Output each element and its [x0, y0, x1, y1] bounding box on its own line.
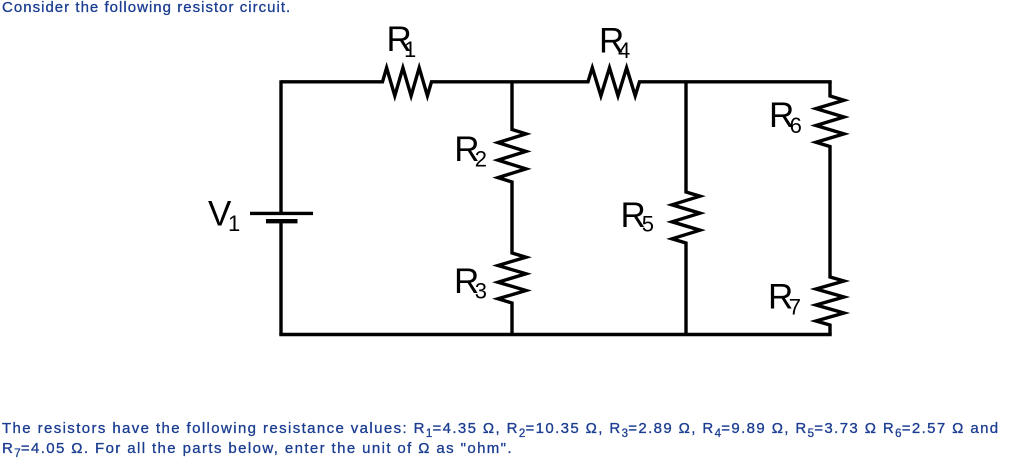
svg-text:3: 3: [475, 279, 487, 304]
middle branch: resistor R2 and resistor R3: [498, 82, 526, 335]
svg-text:4: 4: [618, 38, 630, 63]
battery V1 short plate: [266, 219, 298, 223]
wire top with resistor R1 and resistor R4 zigzags: [281, 68, 832, 96]
bottom paragraph: [2, 419, 1000, 459]
svg-text:1: 1: [228, 211, 240, 236]
svg-text:1: 1: [404, 37, 416, 62]
branch with resistor R5: [672, 82, 700, 335]
svg-text:2: 2: [475, 146, 487, 171]
title text: [2, 0, 291, 16]
svg-text:5: 5: [642, 212, 654, 237]
wire left lower: [279, 221, 282, 334]
wire left upper: [279, 80, 282, 213]
battery V1 long plate: [250, 212, 313, 215]
right branch: resistor R6 and resistor R7: [816, 82, 844, 335]
wire bottom: [279, 333, 831, 336]
svg-text:7: 7: [789, 295, 801, 320]
svg-text:6: 6: [790, 113, 802, 138]
